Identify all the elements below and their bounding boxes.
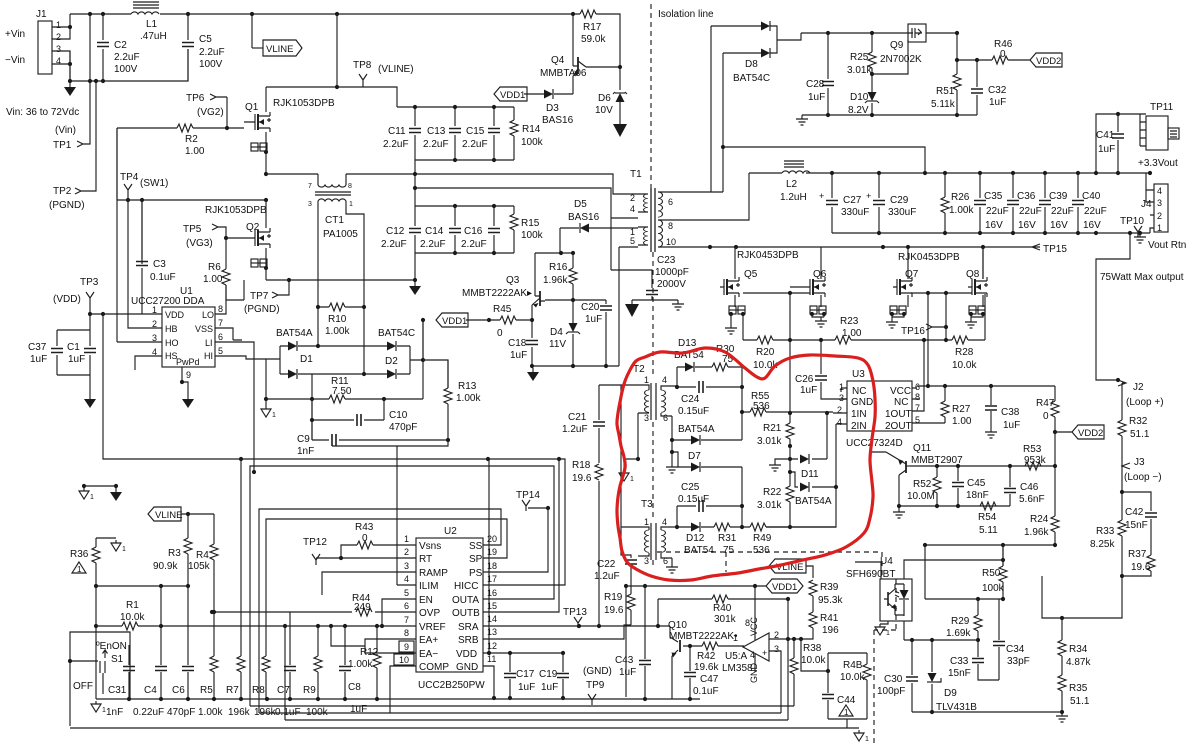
capacitor C31 [128, 645, 130, 699]
svg-text:1uF: 1uF [510, 350, 527, 361]
svg-text:536: 536 [753, 545, 770, 556]
svg-text:6: 6 [663, 413, 668, 423]
svg-text:RT: RT [419, 554, 432, 565]
svg-text:R42: R42 [697, 651, 716, 662]
svg-text:R4: R4 [196, 550, 209, 561]
svg-text:R18: R18 [572, 460, 591, 471]
svg-text:TP8: TP8 [353, 60, 372, 71]
svg-text:R49: R49 [753, 533, 772, 544]
svg-text:3.01k: 3.01k [757, 436, 782, 447]
svg-text:RJK1053DPB: RJK1053DPB [205, 205, 267, 216]
svg-text:Q8: Q8 [966, 269, 980, 280]
resistor R31 [714, 523, 730, 531]
resistor R35 [1061, 691, 1063, 712]
wire bottom buses [250, 706, 794, 720]
svg-text:0.15uF: 0.15uF [678, 406, 709, 417]
svg-text:0: 0 [1000, 49, 1006, 60]
svg-text:BAT54C: BAT54C [733, 73, 770, 84]
svg-text:EA−: EA− [419, 649, 438, 660]
svg-text:1: 1 [349, 201, 353, 208]
svg-text:(VG3): (VG3) [186, 238, 213, 249]
capacitor C19 [530, 653, 563, 698]
svg-text:TP5: TP5 [183, 224, 202, 235]
svg-text:R51: R51 [936, 86, 955, 97]
resistor R46 [977, 59, 1030, 61]
svg-text:BAS16: BAS16 [568, 212, 600, 223]
svg-text:VSS: VSS [195, 324, 213, 334]
wire bus SRB row [483, 625, 631, 639]
inductor L1 [131, 12, 159, 14]
svg-text:J1: J1 [36, 9, 47, 20]
wire VREF rail [148, 625, 416, 627]
resistor R37 [1147, 555, 1155, 571]
svg-text:2: 2 [630, 193, 635, 203]
svg-text:15nF: 15nF [948, 668, 971, 679]
svg-text:EN: EN [419, 595, 433, 606]
svg-text:C10: C10 [389, 410, 408, 421]
svg-text:1.00k: 1.00k [456, 393, 481, 404]
svg-text:RJK0453DPB: RJK0453DPB [737, 250, 799, 261]
wire bias rail [535, 247, 638, 366]
wire VCC rail U3 [917, 385, 1055, 387]
wire VREF drop [284, 626, 286, 720]
svg-text:L2: L2 [786, 179, 798, 190]
svg-text:C20: C20 [581, 302, 600, 313]
svg-text:R54: R54 [978, 512, 997, 523]
svg-text:C6: C6 [172, 685, 185, 696]
svg-text:SRA: SRA [458, 622, 479, 633]
svg-text:16V: 16V [1050, 220, 1068, 231]
svg-text:8.25k: 8.25k [1090, 539, 1115, 550]
wire D7 cathodes [730, 440, 742, 467]
ground Q5 [725, 324, 737, 334]
svg-text:2N7002K: 2N7002K [880, 54, 922, 65]
wire VLINE stub [251, 14, 253, 48]
svg-text:R8: R8 [252, 685, 265, 696]
wire U1 pins left [90, 200, 162, 370]
wire C9 node down [332, 440, 448, 585]
wire Q5 Q6 mid [743, 292, 810, 294]
capacitor C41 [1094, 171, 1098, 175]
wire U1 LI HI [215, 342, 266, 472]
svg-text:C22: C22 [597, 559, 616, 570]
svg-text:D13: D13 [678, 338, 697, 349]
svg-text:330uF: 330uF [888, 207, 916, 218]
svg-text:1.96k: 1.96k [1024, 527, 1049, 538]
svg-text:4: 4 [750, 650, 755, 660]
wire R40 row [658, 599, 788, 639]
svg-text:2: 2 [404, 547, 409, 557]
ground open T2 [619, 470, 634, 483]
capacitor C37 [57, 314, 90, 395]
flag VDD1 mid [422, 320, 424, 360]
resistor R1 [96, 625, 148, 627]
svg-text:C23: C23 [657, 255, 676, 266]
resistor R43 [341, 545, 416, 558]
svg-text:−Vin: −Vin [5, 55, 25, 66]
svg-text:1.2uH: 1.2uH [780, 192, 807, 203]
svg-text:R19: R19 [604, 592, 623, 603]
svg-text:10.0k: 10.0k [952, 360, 977, 371]
svg-text:1uF: 1uF [989, 97, 1006, 108]
svg-text:LM358: LM358 [722, 663, 753, 674]
svg-text:C33: C33 [950, 656, 969, 667]
svg-text:HO: HO [165, 338, 179, 348]
svg-text:S1: S1 [111, 654, 124, 665]
svg-text:15nF: 15nF [1125, 520, 1148, 531]
ground PGND C1 [84, 395, 96, 408]
svg-text:TLV431B: TLV431B [936, 702, 977, 713]
svg-text:9: 9 [404, 642, 409, 652]
wire VDD2 top rail [801, 32, 913, 34]
resistor R23 [835, 336, 851, 344]
svg-text:16V: 16V [1083, 220, 1101, 231]
svg-text:C47: C47 [700, 674, 719, 685]
IC U2 UCC28250PW [416, 538, 483, 672]
wire fb mid row [904, 639, 978, 641]
capacitor C28 [827, 33, 829, 115]
ground PGND U1 [182, 395, 194, 408]
capacitor C3 [141, 200, 143, 314]
svg-text:TP14: TP14 [516, 490, 540, 501]
resistor R32 [1118, 420, 1126, 436]
wire C21 R18 column [598, 385, 600, 626]
svg-text:7: 7 [218, 318, 223, 328]
svg-text:1uF: 1uF [585, 314, 602, 325]
svg-text:Isolation line: Isolation line [658, 9, 714, 20]
resistor R10 [318, 306, 364, 308]
svg-text:100pF: 100pF [877, 686, 905, 697]
svg-text:C41: C41 [1096, 130, 1115, 141]
resistor R29 [977, 599, 979, 640]
resistor R3 [187, 514, 189, 586]
svg-text:R13: R13 [458, 381, 477, 392]
svg-text:Vsns: Vsns [419, 541, 441, 552]
svg-text:C1: C1 [67, 342, 80, 353]
svg-text:3: 3 [644, 413, 649, 423]
svg-text:C36: C36 [1017, 191, 1036, 202]
flag VDD2 [1030, 53, 1062, 67]
wire Q7 Q8 mid [911, 292, 972, 294]
capacitor C40 [1076, 171, 1080, 175]
svg-text:196: 196 [822, 625, 839, 636]
svg-text:3: 3 [56, 44, 61, 54]
transformer T2 core [651, 383, 656, 420]
svg-text:8.2V: 8.2V [848, 105, 869, 116]
svg-text:1.00k: 1.00k [949, 205, 974, 216]
svg-text:8: 8 [668, 221, 673, 231]
svg-text:18nF: 18nF [966, 490, 989, 501]
capacitor C24 [677, 386, 742, 388]
svg-text:C30: C30 [884, 674, 903, 685]
svg-text:R23: R23 [840, 316, 859, 327]
svg-text:R14: R14 [522, 124, 541, 135]
wire EN row [382, 599, 416, 626]
red annotation loop [617, 348, 875, 581]
resistor R13 [423, 360, 449, 440]
svg-text:2.2uF: 2.2uF [381, 239, 407, 250]
svg-text:D7: D7 [688, 451, 701, 462]
resistor R47 [1054, 386, 1056, 432]
svg-text:1000pF: 1000pF [655, 267, 689, 278]
svg-text:5: 5 [218, 346, 223, 356]
svg-text:4: 4 [404, 574, 409, 584]
resistor R11 [266, 360, 423, 440]
wire secondary pin10 rail [672, 246, 983, 248]
svg-text:1uF: 1uF [30, 354, 47, 365]
resistor R53 [1025, 462, 1041, 470]
svg-text:2IN: 2IN [851, 421, 867, 432]
diode D12 BAT54 [677, 526, 714, 528]
diode D9 TLV431B [931, 640, 933, 712]
resistor R21 [789, 413, 791, 446]
svg-text:75: 75 [723, 545, 735, 556]
svg-text:0.15uF: 0.15uF [678, 494, 709, 505]
flag VDD2 right [1055, 431, 1072, 433]
svg-text:R40: R40 [713, 603, 732, 614]
resistor R25 [871, 33, 873, 77]
svg-text:R29: R29 [951, 616, 970, 627]
svg-text:C35: C35 [984, 191, 1003, 202]
svg-text:T1: T1 [630, 169, 642, 180]
capacitor C25 [677, 467, 742, 527]
svg-text:R36: R36 [70, 549, 89, 560]
svg-text:5.11: 5.11 [979, 525, 998, 536]
svg-text:VDD: VDD [165, 310, 185, 320]
svg-text:Q11: Q11 [913, 443, 932, 454]
svg-text:OVP: OVP [419, 608, 440, 619]
capacitor C6 [182, 667, 194, 671]
svg-text:6: 6 [915, 382, 920, 392]
svg-text:Q4: Q4 [551, 55, 565, 66]
capacitor C17 [483, 653, 530, 698]
pin box marks [399, 641, 414, 652]
resistor R36 [96, 538, 116, 586]
wire top rail right [266, 14, 620, 67]
svg-text:(VLINE): (VLINE) [378, 64, 414, 75]
svg-text:4: 4 [837, 417, 842, 427]
svg-text:1: 1 [404, 534, 409, 544]
svg-text:10: 10 [399, 655, 409, 665]
svg-text:Q9: Q9 [890, 40, 904, 51]
svg-text:R31: R31 [718, 533, 737, 544]
svg-text:TP4: TP4 [120, 172, 139, 183]
resistor R17 [580, 10, 596, 18]
svg-text:PwPd: PwPd [176, 357, 200, 367]
svg-text:L1: L1 [146, 19, 158, 30]
capacitor C10 [312, 399, 384, 440]
capacitor C13 [454, 107, 456, 160]
wire U1 VSS [215, 328, 242, 340]
wire Q11 base row [910, 465, 1055, 467]
svg-text:11V: 11V [549, 339, 566, 350]
wire bus SP loop [266, 519, 507, 656]
switch S1 EnON box [70, 632, 130, 726]
wire GND pin11 [483, 666, 494, 698]
flag VDD1 [494, 87, 527, 101]
svg-text:R35: R35 [1069, 683, 1088, 694]
ground PGND arrow input [64, 83, 76, 96]
svg-text:953k: 953k [1024, 455, 1047, 466]
diode D4 zener 11V [572, 300, 574, 366]
IC U1 UCC27200 [162, 307, 215, 367]
resistor R44 [212, 611, 416, 613]
svg-text:1uF: 1uF [808, 92, 825, 103]
resistor R9 [317, 626, 319, 699]
svg-text:TP9: TP9 [586, 680, 605, 691]
wire U1 LO to R6 [215, 285, 226, 314]
svg-text:VREF: VREF [419, 622, 446, 633]
svg-text:C8: C8 [348, 682, 361, 693]
svg-text:.47uH: .47uH [140, 31, 167, 42]
capacitor C16 [493, 206, 495, 253]
capacitor C5 [187, 14, 189, 81]
svg-text:VCC: VCC [749, 616, 759, 636]
resistor R54 [980, 502, 996, 510]
svg-text:GND: GND [456, 662, 478, 673]
svg-text:C39: C39 [1049, 191, 1068, 202]
ground open R48 [854, 730, 869, 743]
svg-text:UCC27324D: UCC27324D [846, 438, 903, 449]
svg-text:PA1005: PA1005 [323, 229, 358, 240]
svg-text:D12: D12 [686, 533, 705, 544]
wire VDD pin12 [488, 459, 490, 653]
wire Q11 collector row [899, 505, 1010, 507]
capacitor C7 [289, 612, 291, 699]
svg-text:2.2uF: 2.2uF [423, 139, 449, 150]
svg-text:Q5: Q5 [744, 269, 758, 280]
resistor R14 [513, 107, 515, 160]
svg-text:R15: R15 [521, 218, 540, 229]
capacitor C15 [493, 107, 495, 160]
resistor R45 [466, 319, 532, 321]
capacitor C30 [911, 640, 913, 712]
svg-text:MMBTA06: MMBTA06 [540, 68, 587, 79]
svg-text:R43: R43 [355, 522, 374, 533]
svg-text:2.2uF: 2.2uF [462, 139, 488, 150]
svg-text:R20: R20 [756, 347, 775, 358]
resistor R41 [809, 612, 817, 628]
svg-text:+: + [866, 191, 871, 201]
svg-text:10: 10 [666, 237, 676, 247]
svg-text:196k: 196k [228, 707, 251, 718]
resistor R39 [812, 596, 814, 612]
svg-text:5: 5 [404, 588, 409, 598]
svg-text:1.69k: 1.69k [946, 628, 971, 639]
svg-text:C9: C9 [297, 434, 310, 445]
wire primary links [415, 174, 638, 270]
svg-text:59.0k: 59.0k [581, 34, 606, 45]
wire C11 bank bottom [415, 160, 514, 206]
svg-text:9: 9 [186, 370, 191, 380]
svg-text:1: 1 [644, 375, 649, 385]
wire top rail [70, 13, 266, 15]
svg-text:1uF: 1uF [800, 385, 817, 396]
svg-text:(Loop −): (Loop −) [1124, 472, 1162, 483]
resistor R12 [376, 626, 378, 698]
svg-text:C27: C27 [843, 195, 862, 206]
wire T2 pin6 gnd [671, 416, 673, 463]
svg-text:Vin: 36 to 72Vdc: Vin: 36 to 72Vdc [6, 107, 79, 118]
svg-text:5.6nF: 5.6nF [1019, 494, 1045, 505]
svg-text:VDD1: VDD1 [500, 90, 525, 101]
flag VLINE lower [148, 507, 181, 521]
svg-text:R17: R17 [583, 22, 602, 33]
svg-text:C5: C5 [199, 34, 212, 45]
capacitor C29 [877, 171, 881, 175]
svg-text:3: 3 [1157, 198, 1162, 208]
diode D3 BAS16 [524, 93, 573, 95]
svg-text:3: 3 [404, 561, 409, 571]
svg-text:(Vin): (Vin) [55, 125, 76, 136]
wire RAMP row [322, 572, 416, 595]
svg-text:10.0M: 10.0M [907, 491, 935, 502]
inductor L2 [749, 172, 1150, 174]
svg-text:105k: 105k [188, 561, 211, 572]
svg-text:4.87k: 4.87k [1066, 657, 1091, 668]
svg-text:R6: R6 [208, 262, 221, 273]
svg-text:R1: R1 [126, 600, 139, 611]
wire COMP row [390, 666, 416, 713]
svg-text:3: 3 [644, 556, 649, 566]
svg-text:HB: HB [165, 324, 178, 334]
svg-text:C11: C11 [388, 126, 406, 137]
svg-text:1uF: 1uF [1003, 420, 1020, 431]
svg-text:0.22uF: 0.22uF [133, 707, 164, 718]
svg-text:R32: R32 [1129, 416, 1148, 427]
wire J1 pins [52, 14, 70, 81]
svg-text:VCC: VCC [890, 386, 911, 397]
resistor R52 [936, 466, 938, 506]
svg-text:TP11: TP11 [1150, 102, 1174, 113]
svg-text:4: 4 [1157, 186, 1162, 196]
svg-text:BAT54: BAT54 [684, 545, 714, 556]
svg-text:C34: C34 [1006, 644, 1025, 655]
svg-text:VDD2: VDD2 [1078, 428, 1103, 439]
svg-text:1.00k: 1.00k [348, 659, 373, 670]
wire source rail [266, 279, 415, 281]
svg-text:249: 249 [354, 602, 371, 613]
svg-text:R24: R24 [1030, 514, 1049, 525]
resistor R26 [923, 171, 927, 175]
resistor R55 [742, 387, 833, 440]
svg-text:1uF: 1uF [541, 682, 558, 693]
svg-text:C19: C19 [539, 669, 558, 680]
svg-text:470pF: 470pF [389, 422, 417, 433]
svg-text:T2: T2 [633, 364, 645, 375]
wire bus OUTB loop [483, 459, 559, 612]
ground VDD2 [796, 115, 808, 125]
svg-text:TP10: TP10 [1120, 216, 1144, 227]
svg-text:2.2uF: 2.2uF [420, 239, 446, 250]
svg-text:22uF: 22uF [1019, 206, 1042, 217]
resistor R34 [1061, 618, 1063, 668]
ground Q11 [893, 508, 905, 518]
svg-text:R5: R5 [200, 685, 213, 696]
svg-text:U5:A: U5:A [725, 651, 748, 662]
svg-text:D6: D6 [598, 93, 611, 104]
svg-text:19.6k: 19.6k [694, 662, 719, 673]
resistor R15 [513, 206, 515, 253]
capacitor C32 [957, 60, 977, 115]
svg-text:R50: R50 [982, 568, 1001, 579]
svg-text:R7: R7 [226, 685, 239, 696]
svg-text:C25: C25 [681, 482, 700, 493]
svg-text:C40: C40 [1082, 191, 1101, 202]
svg-text:R3: R3 [168, 548, 181, 559]
svg-text:TP3: TP3 [80, 277, 99, 288]
resistor R30 [712, 363, 728, 371]
